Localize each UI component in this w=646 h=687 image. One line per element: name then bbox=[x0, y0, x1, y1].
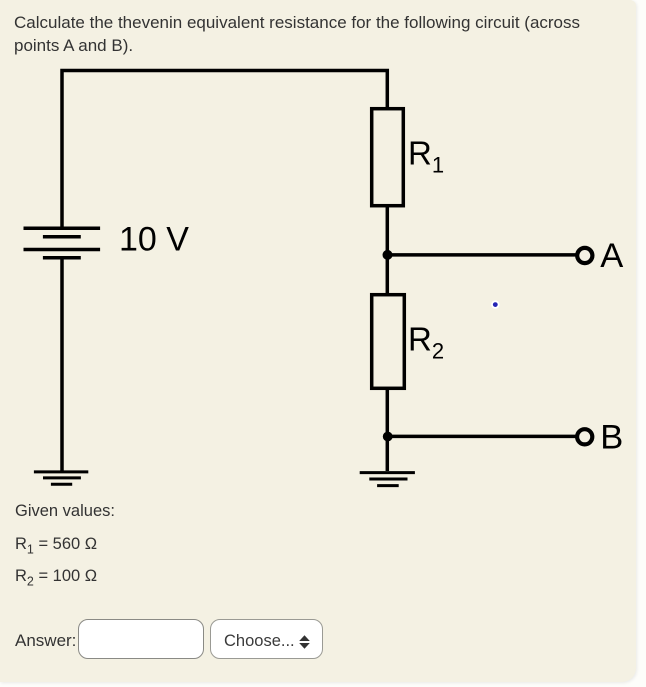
svg-text:R2: R2 bbox=[408, 320, 444, 363]
svg-text:A: A bbox=[600, 237, 623, 275]
svg-text:10 V: 10 V bbox=[119, 221, 189, 259]
svg-text:B: B bbox=[600, 418, 623, 456]
svg-text:R1: R1 bbox=[408, 135, 444, 178]
